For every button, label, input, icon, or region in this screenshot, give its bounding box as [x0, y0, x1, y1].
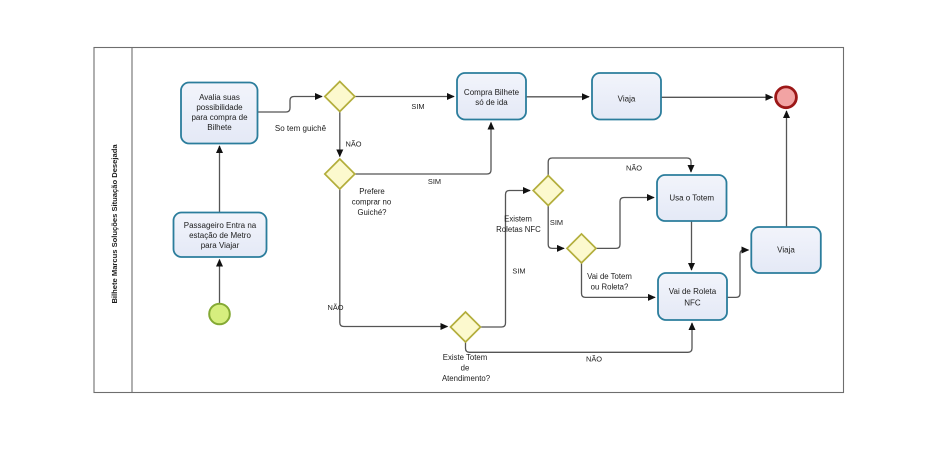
gateway3 Existe Totem de Atendimento: [451, 312, 481, 342]
svg-text:possibilidade: possibilidade: [196, 103, 243, 112]
end event: [776, 87, 797, 108]
svg-text:para Viajar: para Viajar: [201, 241, 240, 250]
svg-text:NÃO: NÃO: [327, 303, 343, 312]
gateway2 Prefere comprar no Guiche: [325, 159, 355, 189]
wire gateway2 to gateway3 (NAO): [340, 189, 448, 327]
wire UsaTotem to VaiRoleta: [691, 221, 693, 270]
wire start to Passageiro: [219, 260, 221, 304]
wire gateway5 to VaiRoleta left: [582, 263, 656, 297]
svg-text:SIM: SIM: [411, 102, 424, 111]
svg-text:Guiché?: Guiché?: [357, 208, 387, 217]
task Viaja 2: [751, 227, 821, 273]
wire gateway4 to UsaTotem top (NAO): [548, 158, 691, 176]
wire Passageiro to Avalia: [219, 146, 221, 213]
svg-text:Existem: Existem: [504, 215, 532, 224]
wire Viaja1 to end event: [661, 96, 773, 98]
task Passageiro Entra na estacao de Metro para Viajar: [174, 213, 267, 258]
svg-text:SIM: SIM: [428, 177, 441, 186]
svg-text:Viaja: Viaja: [777, 246, 795, 255]
wire gateway3 to gateway4 (SIM): [481, 191, 531, 328]
wire gateway3 to VaiRoleta bottom (NAO): [466, 323, 693, 352]
start event: [209, 304, 230, 325]
svg-text:Avalia suas: Avalia suas: [199, 93, 240, 102]
task Usa o Totem: [657, 175, 727, 221]
svg-text:NFC: NFC: [684, 299, 701, 308]
svg-text:So tem guichê: So tem guichê: [275, 124, 327, 133]
svg-text:Viaja: Viaja: [618, 95, 636, 104]
svg-text:ou Roleta?: ou Roleta?: [591, 283, 629, 292]
svg-text:Bilhete Marcus Soluções Situaç: Bilhete Marcus Soluções Situação Desejad…: [110, 144, 119, 304]
pool border: [94, 48, 844, 393]
svg-text:Existe Totem: Existe Totem: [443, 353, 488, 362]
wire VaiRoleta to Viaja2: [727, 250, 749, 297]
wire gateway5 to UsaTotem left: [596, 198, 655, 249]
task Compra Bilhete so de ida: [457, 73, 526, 120]
wire Viaja2 to end event: [786, 111, 788, 227]
gateway1 So tem guiche: [325, 82, 355, 112]
task Avalia suas possibilidade para compra de Bilhete: [181, 83, 258, 144]
wire gateway2 to Compra bottom (SIM): [355, 123, 491, 175]
gateway4 Existem Roletas NFC: [533, 176, 563, 206]
wire Avalia to gateway1: [258, 97, 323, 113]
wire gateway1 to Compra (SIM): [355, 96, 454, 98]
svg-text:SIM: SIM: [512, 267, 525, 276]
wire gateway4 to gateway5 (SIM): [548, 206, 564, 249]
svg-text:Atendimento?: Atendimento?: [442, 374, 491, 383]
svg-text:Bilhete: Bilhete: [207, 123, 232, 132]
lane divider: [131, 48, 133, 393]
svg-text:de: de: [461, 364, 470, 373]
svg-text:Compra Bilhete: Compra Bilhete: [464, 88, 520, 97]
svg-text:comprar no: comprar no: [352, 198, 392, 207]
wire Compra to Viaja1: [526, 96, 589, 98]
svg-text:estação de Metro: estação de Metro: [189, 231, 251, 240]
task Viaja 1: [592, 73, 661, 120]
gateway5 Vai de Totem ou Roleta: [567, 234, 596, 263]
svg-text:NÃO: NÃO: [626, 164, 642, 173]
svg-text:NÃO: NÃO: [345, 140, 361, 149]
svg-text:Vai de Totem: Vai de Totem: [587, 272, 632, 281]
svg-text:Passageiro Entra na: Passageiro Entra na: [184, 221, 257, 230]
svg-text:Vai de Roleta: Vai de Roleta: [669, 287, 717, 296]
svg-text:Prefere: Prefere: [359, 187, 385, 196]
svg-text:NÃO: NÃO: [586, 355, 602, 364]
svg-text:SIM: SIM: [550, 218, 563, 227]
task Vai de Roleta NFC: [658, 273, 727, 320]
svg-text:só de ida: só de ida: [475, 98, 508, 107]
svg-text:Usa o Totem: Usa o Totem: [669, 194, 714, 203]
wire gateway1 to gateway2 (NAO): [339, 112, 341, 157]
svg-text:para compra de: para compra de: [191, 113, 248, 122]
svg-text:Roletas NFC: Roletas NFC: [496, 225, 541, 234]
